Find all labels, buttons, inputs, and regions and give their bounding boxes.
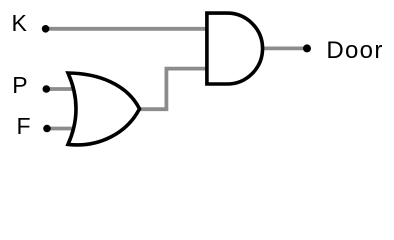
wire P input to OR gate top input bbox=[46, 87, 78, 91]
svg-text:Door: Door bbox=[326, 37, 383, 64]
svg-text:K: K bbox=[12, 10, 28, 36]
node P terminal dot bbox=[43, 85, 51, 93]
wire OR gate output to AND gate bottom input bbox=[138, 69, 211, 110]
svg-text:P: P bbox=[12, 72, 27, 98]
svg-text:F: F bbox=[17, 113, 31, 139]
and-gate AND1 bbox=[207, 13, 263, 84]
wire F input to OR gate bottom input bbox=[47, 127, 78, 131]
or-gate OR1 bbox=[68, 73, 140, 145]
wire K input to AND gate top input bbox=[46, 27, 210, 31]
wire AND gate output to Door node bbox=[258, 47, 307, 51]
node Door terminal dot bbox=[303, 44, 311, 52]
node F terminal dot bbox=[43, 125, 51, 133]
node K terminal dot bbox=[42, 25, 50, 33]
